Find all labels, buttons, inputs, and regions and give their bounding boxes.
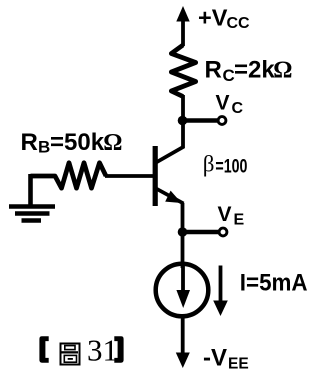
- resistor RB: [31, 163, 107, 189]
- svg-text:Ω: Ω: [103, 130, 122, 156]
- current source I1: [156, 264, 209, 317]
- label VE: [218, 203, 245, 229]
- power supply -VEE arrow: [176, 315, 190, 368]
- label RB=50kOhm: [21, 129, 123, 157]
- svg-text:R: R: [205, 57, 222, 84]
- svg-text:V: V: [218, 203, 232, 226]
- terminal VE open circle: [219, 228, 227, 236]
- wire emitter to VE: [181, 203, 185, 233]
- label VC: [216, 92, 244, 118]
- wire VE to current source: [181, 232, 185, 268]
- svg-text:=50k: =50k: [50, 129, 105, 156]
- svg-text:-V: -V: [203, 345, 227, 372]
- wire base: [105, 174, 153, 178]
- current direction arrow: [213, 266, 228, 317]
- figure caption character tu (drawing): [61, 344, 80, 365]
- svg-text:CC: CC: [227, 15, 251, 32]
- figure caption left bracket: [39, 336, 48, 362]
- label RC=2kOhm: [205, 57, 293, 86]
- figure caption right bracket: [114, 336, 123, 362]
- wire resistor RC to collector: [181, 95, 185, 148]
- wire VC stub: [183, 118, 218, 122]
- svg-text:V: V: [216, 92, 230, 115]
- svg-text:=2k: =2k: [234, 57, 275, 84]
- svg-text:R: R: [21, 129, 38, 156]
- svg-text:Ω: Ω: [273, 58, 292, 84]
- label beta=100: [203, 152, 248, 178]
- svg-text:+V: +V: [198, 5, 228, 31]
- label -VEE: [203, 345, 249, 373]
- svg-text:C: C: [223, 66, 235, 85]
- node VC junction dot: [178, 116, 188, 126]
- power supply +VCC arrow: [176, 6, 189, 46]
- svg-text:=100: =100: [215, 157, 247, 178]
- label +VCC: [198, 5, 250, 33]
- ground: [9, 174, 55, 221]
- svg-text:31: 31: [87, 333, 118, 368]
- svg-text:E: E: [234, 212, 245, 229]
- svg-text:B: B: [38, 138, 50, 157]
- wire VE stub: [183, 230, 219, 234]
- transistor Q1: [155, 146, 184, 206]
- svg-text:β: β: [203, 152, 215, 177]
- svg-text:EE: EE: [228, 356, 249, 373]
- svg-text:I=5mA: I=5mA: [240, 270, 308, 297]
- node VE junction dot: [178, 227, 188, 237]
- terminal VC open circle: [218, 117, 226, 125]
- svg-text:C: C: [232, 100, 244, 117]
- resistor RC: [171, 45, 195, 97]
